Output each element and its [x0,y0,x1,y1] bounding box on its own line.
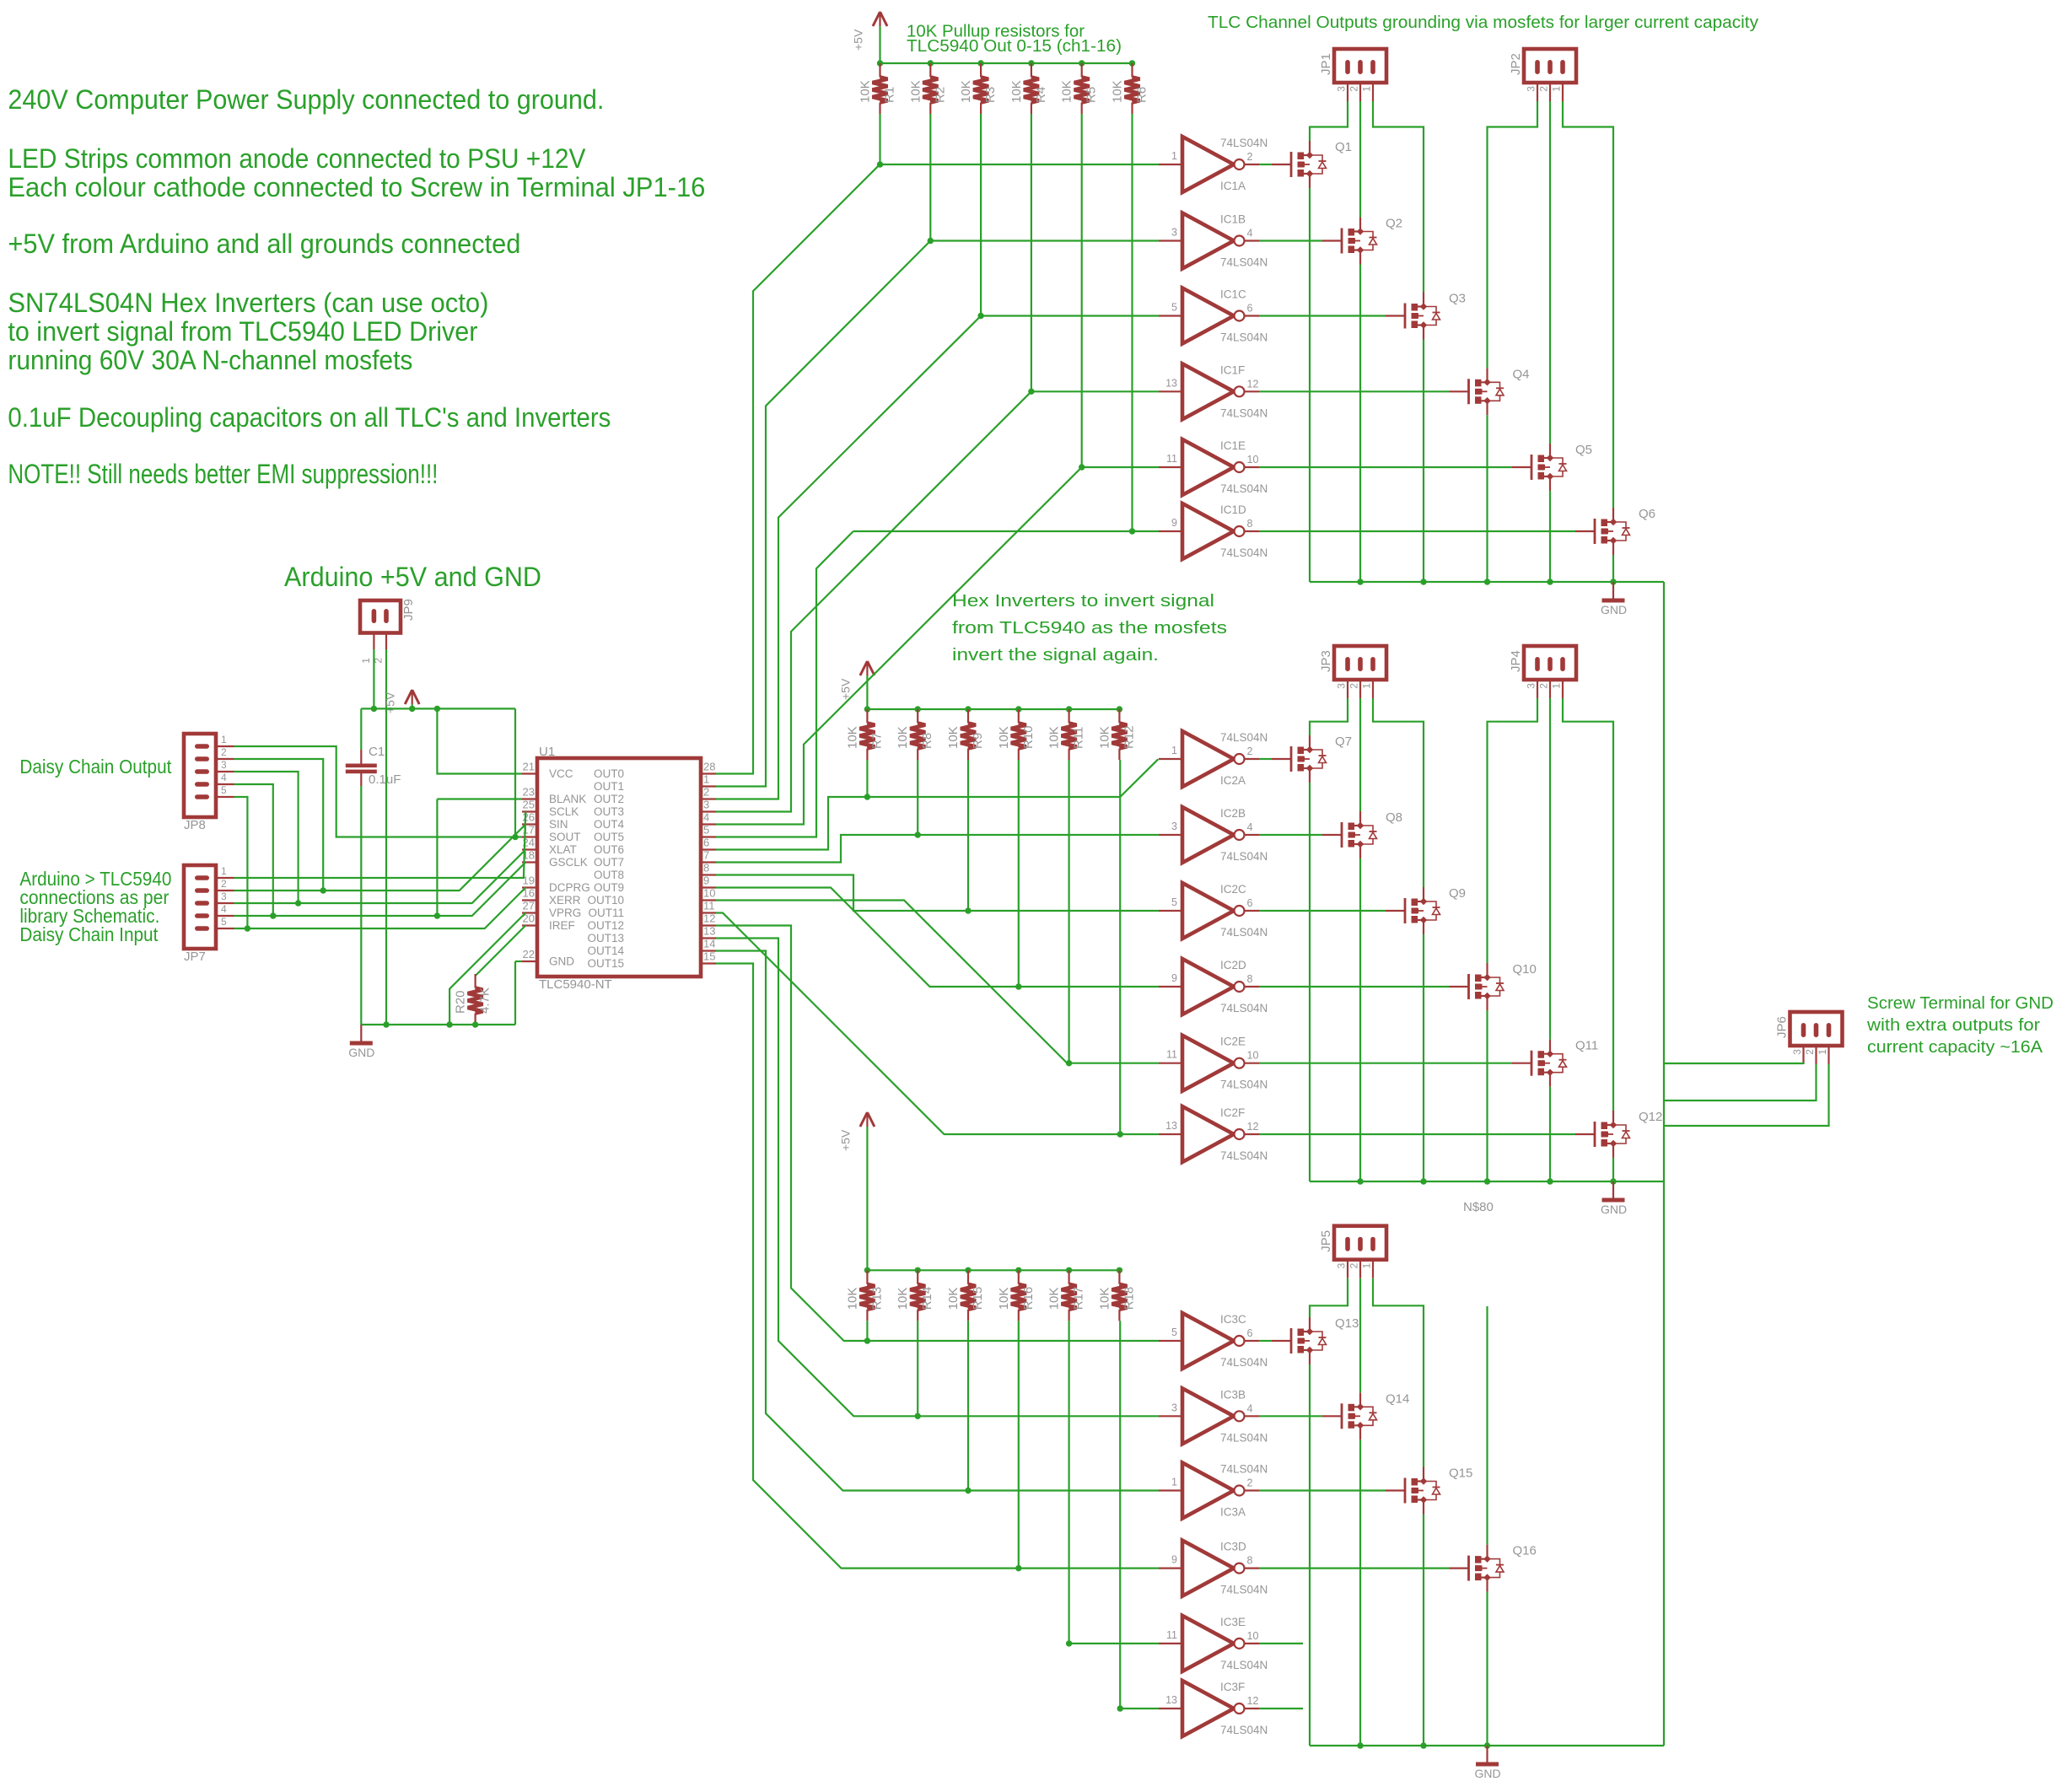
junction [512,834,518,840]
resistor R6 10K [1125,63,1140,114]
connector JP9 2-pin header [360,600,401,649]
svg-text:13: 13 [1165,1694,1177,1706]
wire JP6 pin3 to trunk [1664,1063,1804,1064]
inverter IC1D 74LS04N [1159,503,1259,559]
wire IC2 out row4 to gate [1259,986,1450,987]
inverter IC2F 74LS04N [1159,1106,1259,1162]
svg-text:R10: R10 [1021,725,1036,749]
svg-text:3: 3 [1171,1402,1177,1413]
junction [977,60,983,66]
resistor R7 10K [859,709,875,760]
svg-text:JP3: JP3 [1319,650,1333,672]
svg-text:5: 5 [1171,1327,1177,1338]
svg-text:R3: R3 [983,87,998,103]
svg-text:15: 15 [703,950,715,963]
svg-text:1: 1 [1551,683,1563,689]
junction [1610,1178,1616,1184]
svg-text:10K: 10K [859,80,873,103]
inverter IC1C 74LS04N [1159,288,1259,344]
wire Q16 source to GND bus [1486,1592,1488,1746]
wire JP2 pin1 to Q6 drain [1563,101,1613,508]
svg-text:IC1A: IC1A [1220,180,1246,192]
svg-text:0.1uF: 0.1uF [369,772,401,787]
resistor R18 10K [1112,1270,1127,1321]
svg-text:SN74LS04N Hex Inverters (can u: SN74LS04N Hex Inverters (can use octo) [8,288,488,318]
svg-text:+5V: +5V [838,1129,852,1151]
svg-text:Q14: Q14 [1386,1391,1409,1406]
svg-text:74LS04N: 74LS04N [1220,1149,1268,1162]
svg-text:26: 26 [523,811,535,824]
junction [1066,1060,1072,1066]
inverter IC1B 74LS04N [1159,213,1259,269]
svg-text:6: 6 [1247,897,1253,909]
svg-text:10K: 10K [946,1288,961,1310]
svg-text:JP6: JP6 [1775,1016,1790,1038]
wire JP8 pin5 down [234,797,248,928]
svg-text:R17: R17 [1072,1287,1086,1310]
svg-text:Q13: Q13 [1335,1316,1359,1331]
connector JP2 3-pin header [1524,49,1576,101]
wire IC1C input row [981,315,1159,316]
junction [1015,1565,1021,1571]
junction [1420,1742,1426,1748]
wire IC1 out row5 to gate [1259,466,1512,468]
wire Q7 source to N$80 bus [1309,783,1311,1181]
svg-text:OUT15: OUT15 [587,957,624,970]
svg-text:1: 1 [1361,1262,1373,1268]
svg-text:IC3E: IC3E [1220,1616,1246,1628]
svg-text:10K: 10K [959,80,973,103]
wire R10 column [1018,760,1020,987]
wire VPRG to GND bus [449,913,525,1025]
svg-text:R20: R20 [454,990,468,1014]
wire IC3F output stub [1259,1708,1303,1709]
svg-text:8: 8 [1247,973,1253,985]
svg-text:12: 12 [1247,378,1259,390]
junction [295,900,301,906]
wire OUT14 to IC3A [716,951,1159,1491]
svg-text:1: 1 [221,865,227,877]
connector JP6 3-pin header [1790,1012,1843,1064]
svg-text:OUT13: OUT13 [587,932,624,944]
wire IC1B input row [930,239,1159,241]
svg-text:6: 6 [1247,1327,1253,1339]
svg-text:IC1F: IC1F [1220,363,1245,376]
wire IC1F input row [1031,390,1159,392]
svg-text:10K: 10K [997,1288,1011,1310]
svg-text:4: 4 [1247,228,1253,239]
svg-text:25: 25 [523,799,535,811]
inverter IC2B 74LS04N [1159,807,1259,863]
svg-text:10K: 10K [1097,726,1112,749]
svg-text:10: 10 [1247,1050,1259,1062]
svg-text:JP9: JP9 [401,599,416,621]
svg-text:10: 10 [1247,454,1259,465]
junction [1015,1267,1021,1273]
svg-text:21: 21 [523,761,535,773]
transistor Q6 n-channel mosfet [1575,508,1630,555]
wire C1 to GND bus [360,786,362,1025]
svg-text:3: 3 [221,891,227,902]
svg-text:74LS04N: 74LS04N [1220,406,1268,419]
svg-text:1: 1 [221,734,227,745]
wire R7 column [866,760,868,797]
svg-text:JP1: JP1 [1319,53,1333,75]
svg-text:VCC: VCC [549,767,573,780]
junction [1420,1178,1426,1184]
svg-text:C1: C1 [369,745,385,759]
svg-text:4: 4 [221,772,227,783]
annotation text block top-left [8,84,705,489]
wire R11 column [1068,760,1069,1063]
svg-text:R4: R4 [1034,87,1048,103]
svg-text:Q3: Q3 [1449,292,1466,306]
inverter IC3B 74LS04N [1159,1388,1259,1444]
junction [371,706,377,712]
svg-text:TLC Channel Outputs grounding: TLC Channel Outputs grounding via mosfet… [1208,13,1758,32]
junction [1357,1178,1363,1184]
wire IC2 out row3 to gate [1259,910,1386,912]
svg-text:11: 11 [1166,1049,1177,1061]
svg-text:R2: R2 [933,87,947,103]
svg-text:9: 9 [1171,972,1177,984]
wire Q11 source to N$80 bus [1549,1087,1551,1181]
wire JP5 pin1 to Q15 drain [1373,1278,1424,1467]
+5V supply symbol [405,690,419,704]
svg-text:R18: R18 [1122,1287,1136,1310]
junction [928,238,934,244]
wire Q15 source to GND bus [1423,1515,1424,1746]
wire JP7 pin4 to GSCLK [234,863,526,917]
wire IC1A input row [880,164,1160,165]
svg-text:2: 2 [1348,1262,1360,1268]
svg-text:Q4: Q4 [1513,367,1530,381]
transistor Q16 n-channel mosfet [1450,1545,1504,1592]
svg-text:Q12: Q12 [1639,1110,1662,1124]
svg-text:+5V from Arduino and all groun: +5V from Arduino and all grounds connect… [8,229,520,259]
wire IC1E input row [1082,466,1159,468]
svg-text:TLC5940 Out 0-15 (ch1-16): TLC5940 Out 0-15 (ch1-16) [907,37,1122,56]
svg-text:R6: R6 [1135,87,1149,103]
wire JP3 pin1 to Q9 drain [1373,698,1424,887]
junction [965,1488,971,1493]
svg-text:1: 1 [1551,86,1563,92]
wire OUT5 riser [716,531,853,837]
junction [1357,578,1363,584]
wire R2 column [929,114,931,241]
svg-text:9: 9 [1171,1554,1177,1566]
svg-text:3: 3 [1336,86,1348,92]
svg-text:R7: R7 [869,733,884,749]
transistor Q10 n-channel mosfet [1450,963,1504,1010]
svg-text:IC2B: IC2B [1220,807,1246,820]
wire IC3 out row3 to gate [1259,1489,1386,1491]
wire IC1 out row4 to gate [1259,390,1450,392]
svg-text:3: 3 [703,799,709,811]
svg-text:R1: R1 [883,87,897,103]
svg-text:SIN: SIN [549,818,568,831]
wire IC3 out row2 to gate [1259,1415,1322,1417]
wire JP1 pin1 to Q3 drain [1373,101,1424,293]
svg-text:with extra outputs for: with extra outputs for [1866,1016,2040,1035]
wire JP7 pin3 to XLAT [234,850,526,904]
svg-text:3: 3 [1336,1262,1348,1268]
svg-text:OUT7: OUT7 [594,856,624,869]
junction [1079,60,1085,66]
wire Q13 source to GND bus [1309,1364,1311,1746]
wire +5V bus R7-R12 [867,708,1119,710]
inverter IC1E 74LS04N [1159,439,1259,495]
svg-text:74LS04N: 74LS04N [1220,1584,1268,1596]
junction [1015,706,1021,712]
ground symbol left block [350,1025,373,1043]
transistor Q5 n-channel mosfet [1512,444,1567,491]
ground group1 [1602,582,1625,600]
wire JP8 pin1 to SOUT [234,746,523,837]
wire OUT7 to IC2B [716,835,1159,863]
resistor R5 10K [1074,63,1090,114]
inverter IC3D 74LS04N [1159,1541,1259,1596]
svg-text:10K: 10K [1060,80,1074,103]
wire GND bus left block [361,1024,515,1025]
wire R9 column [967,760,969,911]
resistor R12 10K [1112,709,1127,760]
wire right trunk lower [1663,1181,1665,1746]
junction [1484,1178,1490,1184]
wire JP6 pin2 to trunk [1664,1064,1817,1100]
inverter IC3E 74LS04N [1159,1616,1259,1671]
svg-text:Daisy Chain Input: Daisy Chain Input [19,923,159,945]
wire rail drop to SOUT row [514,708,516,837]
resistor R2 10K [923,63,938,114]
junction [864,794,870,799]
wire JP2 pin2 to Q5 drain [1549,101,1551,444]
svg-text:JP7: JP7 [184,950,206,964]
wire OUT13 to IC3B [716,939,1159,1417]
junction [446,1021,452,1027]
ground group2 [1602,1181,1625,1200]
junction [1117,1705,1123,1711]
svg-text:N$80: N$80 [1463,1200,1494,1214]
wire JP3 pin3 to Q7 drain [1310,698,1348,735]
svg-text:3: 3 [1171,821,1177,832]
resistor R10 10K [1011,709,1026,760]
+5V supply symbol [860,1112,875,1127]
svg-text:3: 3 [1526,86,1537,92]
wire Q14 source to GND bus [1359,1440,1361,1746]
svg-text:Q11: Q11 [1575,1039,1598,1053]
svg-text:3: 3 [1791,1049,1803,1055]
wire OUT6 to IC2A [716,759,1158,849]
svg-text:Q5: Q5 [1575,443,1592,457]
svg-text:10: 10 [703,887,715,900]
wire Q16 drain column [1486,1306,1488,1545]
wire IC2 out row6 to gate [1259,1133,1575,1135]
wire IC3F input row [1120,1708,1159,1709]
svg-text:1: 1 [1171,1477,1177,1488]
wire JP2 pin3 to Q4 drain [1488,101,1538,368]
inverter IC3C 74LS04N [1159,1313,1259,1369]
svg-text:IC2C: IC2C [1220,883,1246,896]
svg-text:Q9: Q9 [1449,886,1466,901]
resistor R14 10K [910,1270,925,1321]
svg-text:74LS04N: 74LS04N [1220,1724,1268,1736]
svg-text:10: 10 [1247,1630,1259,1642]
wire IC1D input row [853,530,1159,532]
svg-text:Q2: Q2 [1386,217,1402,231]
svg-text:IREF: IREF [549,919,575,932]
wire JP8 pin3 down [234,772,299,903]
svg-text:4: 4 [221,903,227,915]
svg-text:74LS04N: 74LS04N [1220,1463,1268,1476]
junction [1610,578,1616,584]
svg-text:R14: R14 [920,1287,934,1310]
transistor Q12 n-channel mosfet [1575,1111,1630,1158]
svg-text:3: 3 [1336,683,1348,689]
svg-text:9: 9 [703,874,709,887]
connector JP8 5-pin header [184,734,234,817]
inverter IC2E 74LS04N [1159,1036,1259,1091]
wire Q9 source to N$80 bus [1423,934,1424,1181]
resistor 4.7K R20 [468,974,483,1025]
svg-text:11: 11 [1166,1629,1177,1641]
svg-text:10K: 10K [1047,1288,1062,1310]
wire +5V bus R1-R6 [880,62,1133,64]
svg-text:0.1uF Decoupling capacitors on: 0.1uF Decoupling capacitors on all TLC's… [8,402,611,433]
wire GND pin stub [515,961,522,962]
wire R6 column [1131,114,1133,531]
wire IC3E input row [1069,1643,1159,1644]
svg-text:12: 12 [1247,1695,1259,1707]
svg-text:NOTE!! Still needs better EMI: NOTE!! Still needs better EMI suppressio… [8,459,438,489]
wire JP7 pin1 to SCLK [234,812,526,879]
junction [1028,60,1034,66]
wire IC2 out row2 to gate [1259,834,1322,836]
wire R12 column [1119,760,1121,1134]
transistor Q9 n-channel mosfet [1386,887,1440,934]
junction [915,1267,921,1273]
svg-text:OUT6: OUT6 [594,843,624,856]
svg-text:2: 2 [703,786,709,799]
svg-text:74LS04N: 74LS04N [1220,850,1268,863]
junction [245,925,250,931]
svg-text:R16: R16 [1021,1287,1036,1310]
svg-text:74LS04N: 74LS04N [1220,1079,1268,1091]
junction [472,1021,478,1027]
wire R18 column [1119,1321,1121,1709]
wire IC2 out row5 to gate [1259,1063,1512,1064]
svg-text:JP2: JP2 [1509,53,1523,75]
junction [1079,464,1085,470]
junction [1547,1178,1553,1184]
svg-text:23: 23 [523,786,535,799]
junction [965,907,971,913]
svg-text:OUT0: OUT0 [594,767,624,780]
junction [877,60,883,66]
junction [965,706,971,712]
wire +5V bus R13-R18 [867,1269,1119,1271]
wire OUT3 to IC1F [716,391,1031,811]
svg-text:9: 9 [1171,517,1177,529]
svg-text:Q15: Q15 [1449,1466,1472,1481]
wire OUT15 to IC3D [716,964,1159,1569]
svg-text:2: 2 [1538,683,1550,689]
resistor R9 10K [961,709,976,760]
svg-text:Daisy Chain Output: Daisy Chain Output [19,756,172,778]
wire OUT12 to IC3C [716,926,1159,1342]
svg-text:SCLK: SCLK [549,805,579,818]
junction [1420,578,1426,584]
transistor Q1 n-channel mosfet [1272,141,1327,188]
svg-text:Hex Inverters to invert signal: Hex Inverters to invert signal [952,592,1214,611]
wire R8 column [917,760,918,835]
svg-text:28: 28 [703,761,715,773]
svg-text:XLAT: XLAT [549,843,577,856]
junction [1484,578,1490,584]
transistor Q8 n-channel mosfet [1322,811,1377,858]
svg-text:4: 4 [703,811,709,824]
resistor R13 10K [859,1270,875,1321]
svg-text:GSCLK: GSCLK [549,856,588,869]
junction [915,831,921,837]
wire group1 GND bus [1310,581,1664,583]
wire Q5 source to GND bus [1549,491,1551,582]
inverter IC2C 74LS04N [1159,883,1259,939]
transistor Q3 n-channel mosfet [1386,293,1440,340]
svg-text:27: 27 [523,900,535,912]
svg-text:74LS04N: 74LS04N [1220,731,1268,744]
wire OUT9 to IC2D [716,888,1159,987]
svg-text:IC1E: IC1E [1220,439,1246,452]
wire OUT10 to IC2E [716,901,1159,1063]
svg-text:74LS04N: 74LS04N [1220,331,1268,344]
+5V supply symbol [873,12,887,26]
ground group3 [1476,1746,1499,1764]
svg-text:OUT9: OUT9 [594,881,624,894]
svg-text:7: 7 [703,849,709,862]
wire JP4 pin3 to Q10 drain [1488,698,1538,963]
svg-text:13: 13 [703,925,715,938]
svg-text:invert the signal again.: invert the signal again. [952,646,1159,665]
svg-text:5: 5 [221,784,227,796]
wire OUT8 to IC2C [716,875,1159,912]
svg-text:R15: R15 [971,1287,985,1310]
svg-text:OUT1: OUT1 [594,780,624,793]
svg-text:OUT10: OUT10 [587,894,624,907]
svg-text:OUT11: OUT11 [588,907,624,919]
junction [864,1267,870,1273]
wire JP4 pin1 to Q12 drain [1563,698,1613,1111]
svg-text:3: 3 [221,759,227,771]
wire Q2 source to GND bus [1359,265,1361,583]
svg-text:11: 11 [1166,453,1177,465]
resistor R17 10K [1062,1270,1077,1321]
svg-text:1: 1 [1817,1049,1828,1055]
wire OUT0 to IC1A [716,164,880,774]
svg-text:74LS04N: 74LS04N [1220,1659,1268,1671]
svg-text:R12: R12 [1122,725,1136,749]
wire IC1 out row6 to gate [1259,530,1575,532]
transistor Q2 n-channel mosfet [1322,218,1377,265]
wire Q3 source to GND bus [1423,340,1424,583]
svg-text:current capacity ~16A: current capacity ~16A [1867,1038,2043,1057]
svg-text:1: 1 [360,658,372,664]
svg-text:GND: GND [1475,1767,1501,1780]
wire R1 column [879,114,880,164]
svg-text:Screw Terminal for GND: Screw Terminal for GND [1867,994,2054,1013]
wire +5V rail [361,708,515,709]
wire JP1 pin2 to Q2 drain [1359,101,1361,218]
